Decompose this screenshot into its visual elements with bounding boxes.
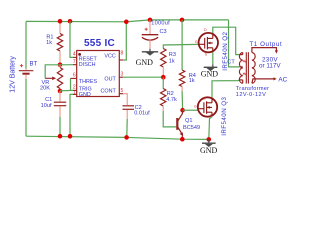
wire Q2 drain to transformer top [213,27,240,54]
svg-text:3: 3 [121,71,124,77]
wire battery negative to bottom rail [25,79,27,136]
svg-text:20K: 20K [40,86,50,92]
svg-text:8: 8 [121,50,124,56]
wire THRES-TRIG tie [70,78,72,90]
capacitor C2 0.01uf [123,94,135,138]
wire rail to RESET pin4 [70,21,73,57]
svg-text:1k: 1k [189,78,195,84]
svg-text:GND: GND [79,92,91,98]
wire battery positive to rail [25,21,27,68]
node R4/Q1-collector/Q3-gate junction [180,108,185,113]
svg-text:G: G [194,105,197,109]
node C1/rail [58,134,63,139]
node rail/RESET [68,19,73,24]
resistor R1 [57,21,62,64]
wire TRIG pin2 to junction [60,89,73,91]
wire GND pin1 to bottom rail [70,94,73,136]
svg-text:0.01uf: 0.01uf [134,110,150,116]
svg-text:1k: 1k [46,40,52,46]
primary terminal stubs [240,54,243,56]
wire top +12V rail [26,20,229,22]
svg-text:5: 5 [121,88,124,94]
svg-text:BC549: BC549 [183,125,200,131]
pin stubs right [119,59,123,61]
wire VCC pin8 to rail [123,22,126,60]
svg-text:10uf: 10uf [41,103,52,109]
svg-text:G: G [195,40,198,44]
secondary top lead with arrow [252,48,277,53]
svg-text:or 117V: or 117V [259,63,281,70]
svg-text:7: 7 [73,59,76,65]
transistor Q2 IRF540N [195,28,218,57]
svg-text:1k: 1k [169,58,175,64]
wire DISCH pin7 to junction [60,64,73,66]
resistor R2 [161,77,166,111]
wire R2 to Q1 base [163,111,176,127]
node Q3 source/rail [207,137,212,142]
svg-text:4.7k: 4.7k [166,97,177,103]
svg-text:CT: CT [227,60,235,66]
wire Q2 source to ground [212,52,214,64]
node rail/R1 [58,19,63,24]
svg-text:12V-0-12V: 12V-0-12V [236,92,266,98]
wire Q3 source to rail end [209,117,212,140]
svg-text:R3: R3 [169,52,176,58]
ground under Q2 [204,64,218,71]
potentiometer VR wiper arrow [45,77,56,81]
pin stubs left [71,57,124,94]
core [245,52,247,83]
svg-text:VCC: VCC [104,54,115,60]
secondary coil [252,53,255,84]
svg-text:D: D [203,97,206,101]
svg-text:1000uf: 1000uf [151,21,170,27]
svg-text:D: D [204,28,207,32]
wire VR wiper loop [45,65,60,79]
svg-text:6: 6 [73,73,76,79]
resistor R4 [179,20,184,110]
node Q1 emitter/rail [180,137,185,142]
svg-text:4: 4 [73,52,76,58]
svg-text:OUT: OUT [104,77,116,83]
svg-text:GND: GND [136,58,154,67]
wire OUT pin3 to R3/R2 junction [123,76,163,78]
svg-text:AC: AC [278,76,287,83]
svg-text:GND: GND [201,70,219,79]
node VCC/rail [124,20,129,25]
winding polarity marks [243,60,246,62]
svg-text:12V Battery: 12V Battery [10,56,17,93]
node C2/rail [124,135,129,140]
transformer T1 [239,48,278,84]
op-amp 555 IC U1 box [71,51,124,97]
svg-text:THRES: THRES [79,79,98,85]
capacitor C1 [54,91,66,117]
svg-text:C3: C3 [160,29,167,35]
svg-text:IRF540N Q3: IRF540N Q3 [221,96,228,135]
wire rail to transformer CT [229,20,240,67]
svg-text:GND: GND [200,146,218,155]
transistor Q3 IRF540N [194,97,217,118]
battery BT [19,64,34,79]
wire bottom ground rail [26,136,209,139]
svg-text:555 IC: 555 IC [84,38,115,49]
secondary bottom lead with arrow [252,79,274,83]
wire junction to Q3 gate [183,109,198,111]
svg-text:1: 1 [73,90,76,96]
wire C1 to bottom rail [59,117,61,136]
wire Q3 drain to transformer bottom [212,80,240,98]
node rail/C3 [148,18,153,23]
resistor R3 [161,44,199,77]
transistor Q1 BC549 [177,111,183,140]
svg-text:Q1: Q1 [185,118,192,124]
ground under C3 [142,49,158,56]
svg-text:BT: BT [30,62,38,68]
node VR/C1/TRIG junction [58,89,63,94]
svg-text:T1 Output: T1 Output [249,41,282,48]
capacitor C3 1000uf [142,20,159,49]
node R1/VR/DISCH junction [58,63,63,68]
potentiometer VR 20K [57,65,62,91]
ground under Q3 [202,139,216,147]
node rail/R4 [180,18,185,23]
node OUT junction [161,75,166,80]
node GND-wire/rail [68,134,73,139]
svg-text:DISCH: DISCH [79,62,96,68]
svg-text:CONT: CONT [101,88,117,94]
primary coil [239,53,242,84]
